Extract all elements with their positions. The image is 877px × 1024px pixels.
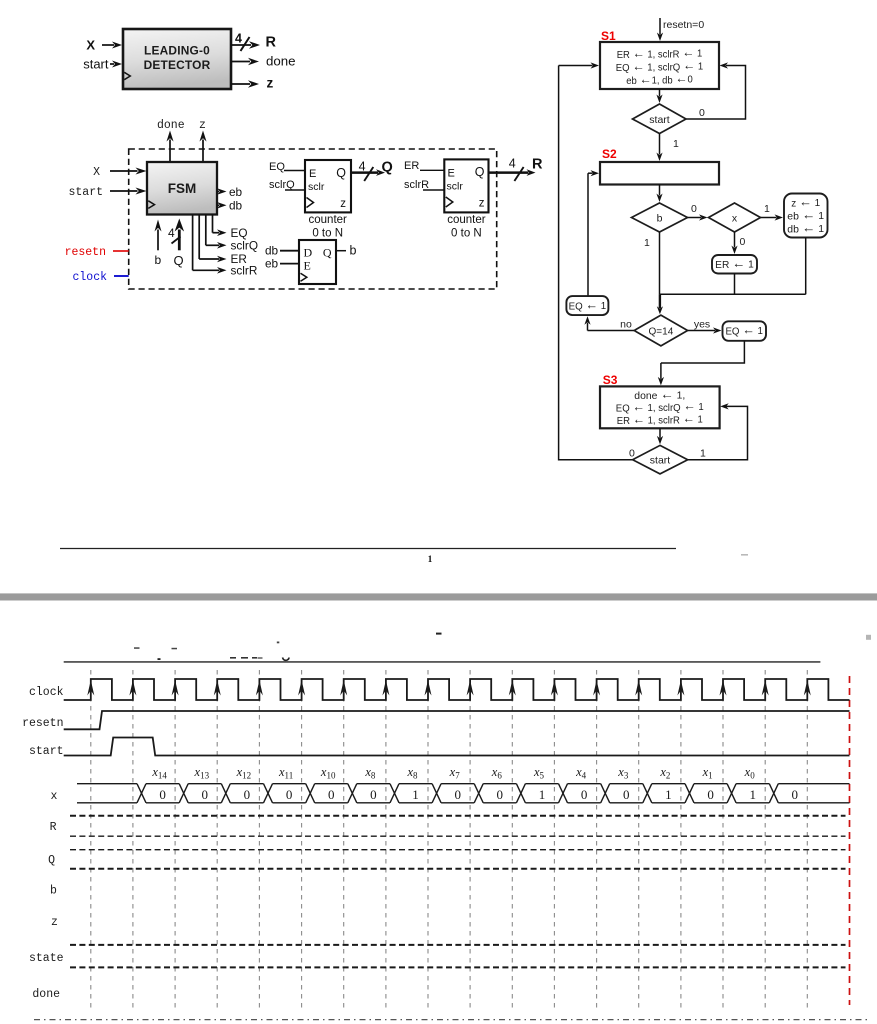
svg-text:LEADING-0: LEADING-0 [144, 44, 210, 58]
svg-text:0: 0 [691, 203, 697, 215]
svg-text:z: z [479, 198, 485, 210]
svg-text:start: start [649, 114, 670, 126]
svg-text:b: b [155, 253, 162, 267]
svg-text:1: 1 [673, 138, 679, 150]
svg-text:R: R [50, 821, 57, 834]
svg-text:x: x [51, 790, 58, 803]
svg-text:1: 1 [665, 787, 672, 802]
svg-text:sclrR: sclrR [404, 179, 429, 191]
svg-text:done: done [266, 54, 296, 69]
svg-text:1: 1 [539, 787, 546, 802]
svg-text:D: D [304, 246, 313, 260]
svg-text:sclr: sclr [308, 181, 325, 193]
svg-text:1: 1 [644, 237, 650, 249]
svg-text:sclrQ: sclrQ [231, 239, 259, 253]
svg-text:R: R [532, 157, 543, 173]
svg-text:0 to N: 0 to N [451, 228, 482, 240]
svg-text:done: done [157, 119, 185, 132]
svg-text:E: E [309, 168, 316, 180]
svg-text:Q: Q [174, 253, 184, 268]
svg-text:no: no [620, 319, 632, 331]
svg-text:resetn=0: resetn=0 [663, 19, 704, 31]
svg-text:b: b [50, 885, 57, 898]
svg-text:Q: Q [475, 165, 485, 179]
svg-text:0: 0 [792, 787, 799, 802]
svg-text:0 to N: 0 to N [312, 228, 343, 240]
svg-text:clock: clock [72, 271, 107, 284]
svg-text:R: R [266, 35, 277, 51]
svg-text:DETECTOR: DETECTOR [144, 58, 211, 72]
svg-text:S2: S2 [602, 147, 617, 161]
svg-text:0: 0 [202, 787, 209, 802]
svg-text:sclr: sclr [447, 181, 464, 193]
svg-text:start: start [650, 455, 671, 467]
svg-text:yes: yes [694, 319, 710, 331]
svg-text:z: z [51, 916, 58, 929]
svg-text:Q=14: Q=14 [649, 327, 674, 338]
svg-text:0: 0 [370, 787, 377, 802]
svg-text:0: 0 [286, 787, 293, 802]
svg-text:state: state [29, 952, 64, 965]
svg-text:0: 0 [740, 236, 746, 248]
svg-text:clock: clock [29, 686, 64, 699]
svg-text:1: 1 [412, 787, 419, 802]
svg-text:S3: S3 [603, 373, 618, 387]
svg-text:sclrQ: sclrQ [269, 179, 295, 191]
svg-text:x: x [732, 213, 738, 225]
svg-text:eb: eb [265, 257, 279, 271]
svg-text:0: 0 [707, 787, 714, 802]
svg-text:4: 4 [509, 157, 516, 171]
svg-text:Q: Q [323, 246, 332, 260]
svg-text:db: db [229, 199, 243, 213]
svg-text:FSM: FSM [168, 181, 197, 196]
svg-text:b: b [657, 213, 663, 225]
svg-text:0: 0 [328, 787, 335, 802]
svg-text:0: 0 [699, 107, 705, 119]
svg-text:X: X [93, 166, 100, 179]
svg-text:start: start [68, 186, 103, 199]
svg-text:counter: counter [309, 214, 348, 226]
svg-text:EQ: EQ [269, 161, 285, 173]
svg-text:0: 0 [454, 787, 461, 802]
svg-text:db: db [265, 244, 279, 258]
svg-text:start: start [83, 57, 109, 72]
svg-text:start: start [29, 745, 64, 758]
svg-text:1: 1 [428, 555, 433, 565]
svg-text:resetn: resetn [65, 246, 106, 259]
svg-text:counter: counter [447, 214, 486, 226]
svg-text:1: 1 [700, 448, 706, 460]
svg-text:4: 4 [168, 226, 175, 240]
svg-text:Q: Q [336, 166, 346, 180]
svg-text:1: 1 [764, 203, 770, 215]
svg-text:Q: Q [48, 854, 55, 867]
svg-text:b: b [350, 244, 357, 258]
svg-text:0: 0 [623, 787, 630, 802]
svg-text:0: 0 [159, 787, 166, 802]
svg-text:resetn: resetn [22, 717, 63, 730]
svg-text:0: 0 [629, 448, 635, 460]
svg-text:0: 0 [244, 787, 251, 802]
svg-text:X: X [86, 38, 95, 53]
svg-text:ER: ER [404, 160, 419, 172]
svg-text:0: 0 [497, 787, 504, 802]
svg-text:z: z [199, 119, 206, 132]
svg-text:1: 1 [749, 787, 756, 802]
svg-text:0: 0 [581, 787, 588, 802]
svg-text:done: done [32, 988, 60, 1001]
svg-text:z: z [267, 76, 274, 91]
svg-text:z: z [340, 198, 346, 210]
svg-text:4: 4 [235, 32, 242, 46]
svg-text:E: E [448, 168, 455, 180]
svg-text:E: E [304, 259, 311, 273]
svg-text:sclrR: sclrR [231, 264, 258, 278]
svg-text:eb: eb [229, 185, 243, 199]
svg-text:Q: Q [382, 160, 393, 176]
svg-text:4: 4 [359, 160, 366, 174]
